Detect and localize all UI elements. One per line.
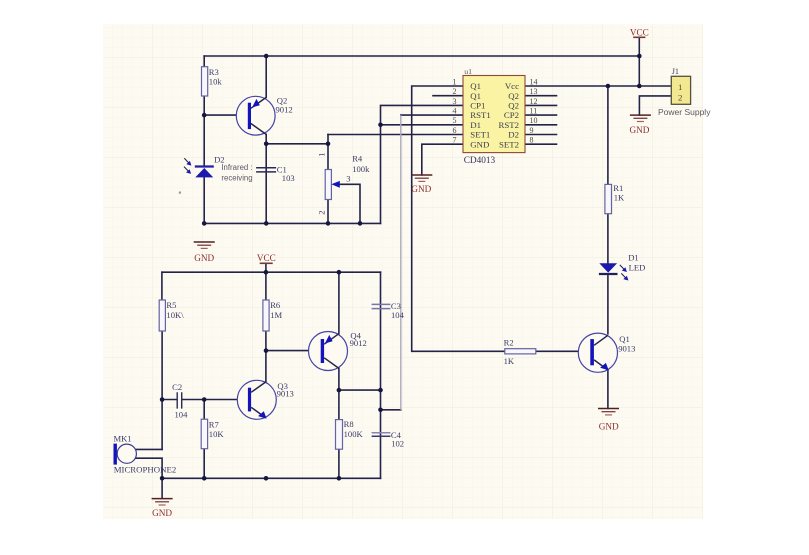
svg-text:10K\: 10K\ <box>166 310 184 320</box>
potentiometer R4 wiper arrow <box>331 181 340 188</box>
ground GND4 (Q1 emitter) <box>598 409 619 432</box>
wire R7 stems <box>203 400 205 479</box>
svg-text:CP1: CP1 <box>470 101 485 111</box>
wire IC pin9 stub <box>526 134 557 136</box>
svg-text:9013: 9013 <box>277 389 294 399</box>
svg-text:1M: 1M <box>270 310 282 320</box>
wire Q2 emitter up <box>265 56 267 97</box>
IC U1 left pin numbers <box>453 77 457 144</box>
wire IC pin11 stub <box>526 114 557 116</box>
capacitor C2 <box>177 392 182 408</box>
wire R2 to Q1 base <box>536 350 591 352</box>
wire collector node to C column <box>339 389 381 391</box>
svg-text:D1: D1 <box>628 252 639 262</box>
svg-text:R4: R4 <box>352 153 363 163</box>
wire Q1 emitter to ground <box>607 370 609 408</box>
connector J1 body <box>671 76 690 104</box>
ground GND5 (J1 pin2) <box>629 115 650 135</box>
wire R4 wiper pin3 <box>339 184 360 223</box>
capacitor C1 <box>256 168 276 172</box>
resistor R1 <box>605 184 612 213</box>
svg-text:9: 9 <box>530 126 534 135</box>
svg-text:R2: R2 <box>504 337 514 347</box>
svg-text:7: 7 <box>453 136 457 145</box>
svg-text:Q1: Q1 <box>470 91 481 101</box>
resistor R2 <box>505 349 536 354</box>
wire IC pin3 <box>381 105 464 124</box>
IC U1 right pin numbers <box>530 77 538 144</box>
svg-text:12: 12 <box>530 97 538 106</box>
svg-text:104: 104 <box>391 310 405 320</box>
wire D1 to Q1 collector <box>607 275 609 334</box>
svg-text:14: 14 <box>530 77 538 86</box>
wire Q2 base <box>204 114 248 116</box>
svg-text:RST1: RST1 <box>470 110 491 120</box>
wire node collector to R4 column <box>266 143 328 145</box>
svg-text:MICROPHONE2: MICROPHONE2 <box>114 465 177 475</box>
ground GND2 (amplifier) <box>152 478 173 518</box>
resistor R5 <box>159 300 165 331</box>
svg-text:1K: 1K <box>504 356 515 366</box>
wire R5 top stem <box>161 272 163 300</box>
wire IC pin13 stub <box>526 95 557 97</box>
wire IC pin5 <box>381 124 464 126</box>
svg-text:5: 5 <box>453 116 457 125</box>
wire IC pin2 stub <box>433 95 463 97</box>
wire mic terminal top <box>135 448 163 450</box>
svg-text:Q2: Q2 <box>508 101 519 111</box>
wire D2 anode down <box>203 178 205 224</box>
wire bottom of IR stage <box>204 222 380 224</box>
schematic sheet background <box>103 24 703 519</box>
svg-text:9012: 9012 <box>350 338 367 348</box>
svg-text:Q1: Q1 <box>470 81 481 91</box>
wire Q4 collector to R8 <box>338 368 340 419</box>
svg-text:VCC: VCC <box>257 253 276 263</box>
wire VCC rail of amplifier <box>162 271 381 273</box>
label D2 comment <box>221 163 252 183</box>
svg-text:LED: LED <box>629 262 646 272</box>
wire R5 bottom to microphone <box>161 331 163 449</box>
svg-text:R1: R1 <box>613 183 623 193</box>
svg-text:100k: 100k <box>352 164 370 174</box>
wire C2 left <box>162 399 176 401</box>
wire C1 vertical <box>265 144 267 224</box>
wire IC pin4 stub <box>401 114 463 116</box>
resistor R8 <box>336 420 343 450</box>
wire IC pin4 vertical (light) <box>400 115 402 410</box>
svg-text:Power Supply: Power Supply <box>658 107 711 117</box>
IC U1 right pin names <box>498 81 519 149</box>
wire J1 pin2 to ground <box>639 96 671 115</box>
transistor Q1 (NPN 9013) <box>578 333 617 372</box>
wire VCC1 stem down to pin14 net <box>638 37 640 86</box>
svg-text:GND: GND <box>470 139 489 149</box>
ground GND1 (IR stage) <box>194 242 215 263</box>
svg-text:R3: R3 <box>209 67 219 77</box>
svg-text:D2: D2 <box>508 130 519 140</box>
wire IC pin10 stub <box>526 124 557 126</box>
svg-text:10K: 10K <box>209 429 225 439</box>
wire R6 bottom to Q3 collector <box>265 331 267 382</box>
svg-text:GND: GND <box>629 125 649 135</box>
svg-text:1: 1 <box>678 82 682 92</box>
svg-text:Q1: Q1 <box>619 334 630 344</box>
svg-text:R8: R8 <box>344 419 354 429</box>
ground GND3 (IC pin7) <box>411 175 432 194</box>
IC U1 left pin names <box>470 81 491 149</box>
wire Q4 emitter up <box>338 272 340 334</box>
svg-text:10: 10 <box>530 116 538 125</box>
svg-text:receiving: receiving <box>221 174 252 183</box>
svg-text:3: 3 <box>346 173 350 183</box>
svg-text:102: 102 <box>391 439 404 449</box>
wire C3 C4 column <box>380 272 382 478</box>
microphone MK1 <box>114 444 137 465</box>
svg-text:J1: J1 <box>672 67 679 76</box>
wire C2 right to Q3 base <box>183 399 248 401</box>
svg-text:11: 11 <box>530 107 538 116</box>
svg-text:1K: 1K <box>614 193 625 203</box>
wire R1 to D1 <box>607 214 609 264</box>
svg-text:8: 8 <box>530 136 534 145</box>
svg-text:9013: 9013 <box>618 344 635 354</box>
svg-text:4: 4 <box>453 107 457 116</box>
power port VCC top <box>630 27 649 37</box>
LED D1 <box>599 263 629 280</box>
transistor Q2 (PNP 9012) <box>236 96 275 135</box>
wire R4 pin2 down <box>327 200 329 224</box>
svg-text:GND: GND <box>152 508 172 518</box>
svg-text:100K: 100K <box>344 429 364 439</box>
svg-text:RST2: RST2 <box>498 120 519 130</box>
svg-text:CP2: CP2 <box>504 110 519 120</box>
wire pin4 horizontal <box>381 409 401 411</box>
svg-text:SET2: SET2 <box>499 139 519 149</box>
svg-text:CD4013: CD4013 <box>464 156 496 166</box>
svg-text:R7: R7 <box>209 419 220 429</box>
svg-text:Q2: Q2 <box>508 91 519 101</box>
wire R1 column top <box>607 86 609 184</box>
svg-text:2: 2 <box>316 211 326 215</box>
wire Q2 collector down <box>265 134 267 143</box>
wire IC pin7 to ground <box>422 144 463 175</box>
power port VCC mid <box>257 253 276 263</box>
svg-text:1: 1 <box>453 77 457 86</box>
svg-text:2: 2 <box>678 92 682 102</box>
wire top rail VCC net <box>204 55 639 57</box>
svg-text:Vcc: Vcc <box>505 81 519 91</box>
svg-text:3: 3 <box>453 97 457 106</box>
svg-text:2: 2 <box>453 87 457 96</box>
wire IC pin12 stub <box>526 104 557 106</box>
svg-text:R6: R6 <box>270 300 281 310</box>
svg-text:GND: GND <box>194 253 214 263</box>
wire R4 to IC pin6 <box>328 134 463 136</box>
svg-text:6: 6 <box>453 126 457 135</box>
svg-text:104: 104 <box>175 410 189 420</box>
IC U1 CD4013 body <box>463 76 525 153</box>
wire R8 bottom stem <box>338 449 340 478</box>
wire ground rail bottom <box>162 477 380 479</box>
transistor Q4 (PNP 9012) <box>309 332 348 371</box>
wire pin3-5 column down <box>380 125 382 224</box>
svg-text:GND: GND <box>411 184 431 194</box>
svg-text:u1: u1 <box>464 67 472 76</box>
svg-text:1: 1 <box>316 153 326 157</box>
wire R6 top stem <box>265 272 267 300</box>
svg-text:GND: GND <box>599 422 619 432</box>
svg-text:C2: C2 <box>172 382 182 392</box>
transistor Q3 (NPN 9013) <box>237 380 276 419</box>
wire R3 top stem <box>203 56 205 67</box>
capacitor C3 <box>372 304 391 308</box>
wire IC pin8 stub <box>526 143 557 145</box>
svg-text:R5: R5 <box>166 300 176 310</box>
photodiode D2 <box>184 158 214 177</box>
resistor R6 <box>263 300 269 331</box>
capacitor C4 <box>372 433 391 437</box>
wire R3 bottom to D2 <box>203 96 205 166</box>
svg-text:MK1: MK1 <box>114 433 132 443</box>
resistor R7 <box>201 419 207 449</box>
svg-text:103: 103 <box>282 173 295 183</box>
svg-text:13: 13 <box>530 87 538 96</box>
potentiometer R4 body <box>325 170 331 200</box>
svg-text:10k: 10k <box>209 76 223 86</box>
wire IC pin14 to J1 <box>526 85 672 87</box>
svg-text:Infrared :: Infrared : <box>221 163 252 172</box>
wire IC pin1 to R2 <box>412 86 505 351</box>
stray mark <box>179 192 181 194</box>
svg-text:VCC: VCC <box>630 27 649 37</box>
svg-text:9012: 9012 <box>276 105 293 115</box>
wire mic terminal bottom <box>135 458 163 478</box>
wire R4 top pin1 <box>327 135 329 170</box>
svg-text:D1: D1 <box>470 120 481 130</box>
wire Q4 base <box>266 350 321 352</box>
wire VCC2 stem <box>265 263 267 272</box>
resistor R3 <box>202 67 208 96</box>
svg-text:SET1: SET1 <box>470 130 490 140</box>
